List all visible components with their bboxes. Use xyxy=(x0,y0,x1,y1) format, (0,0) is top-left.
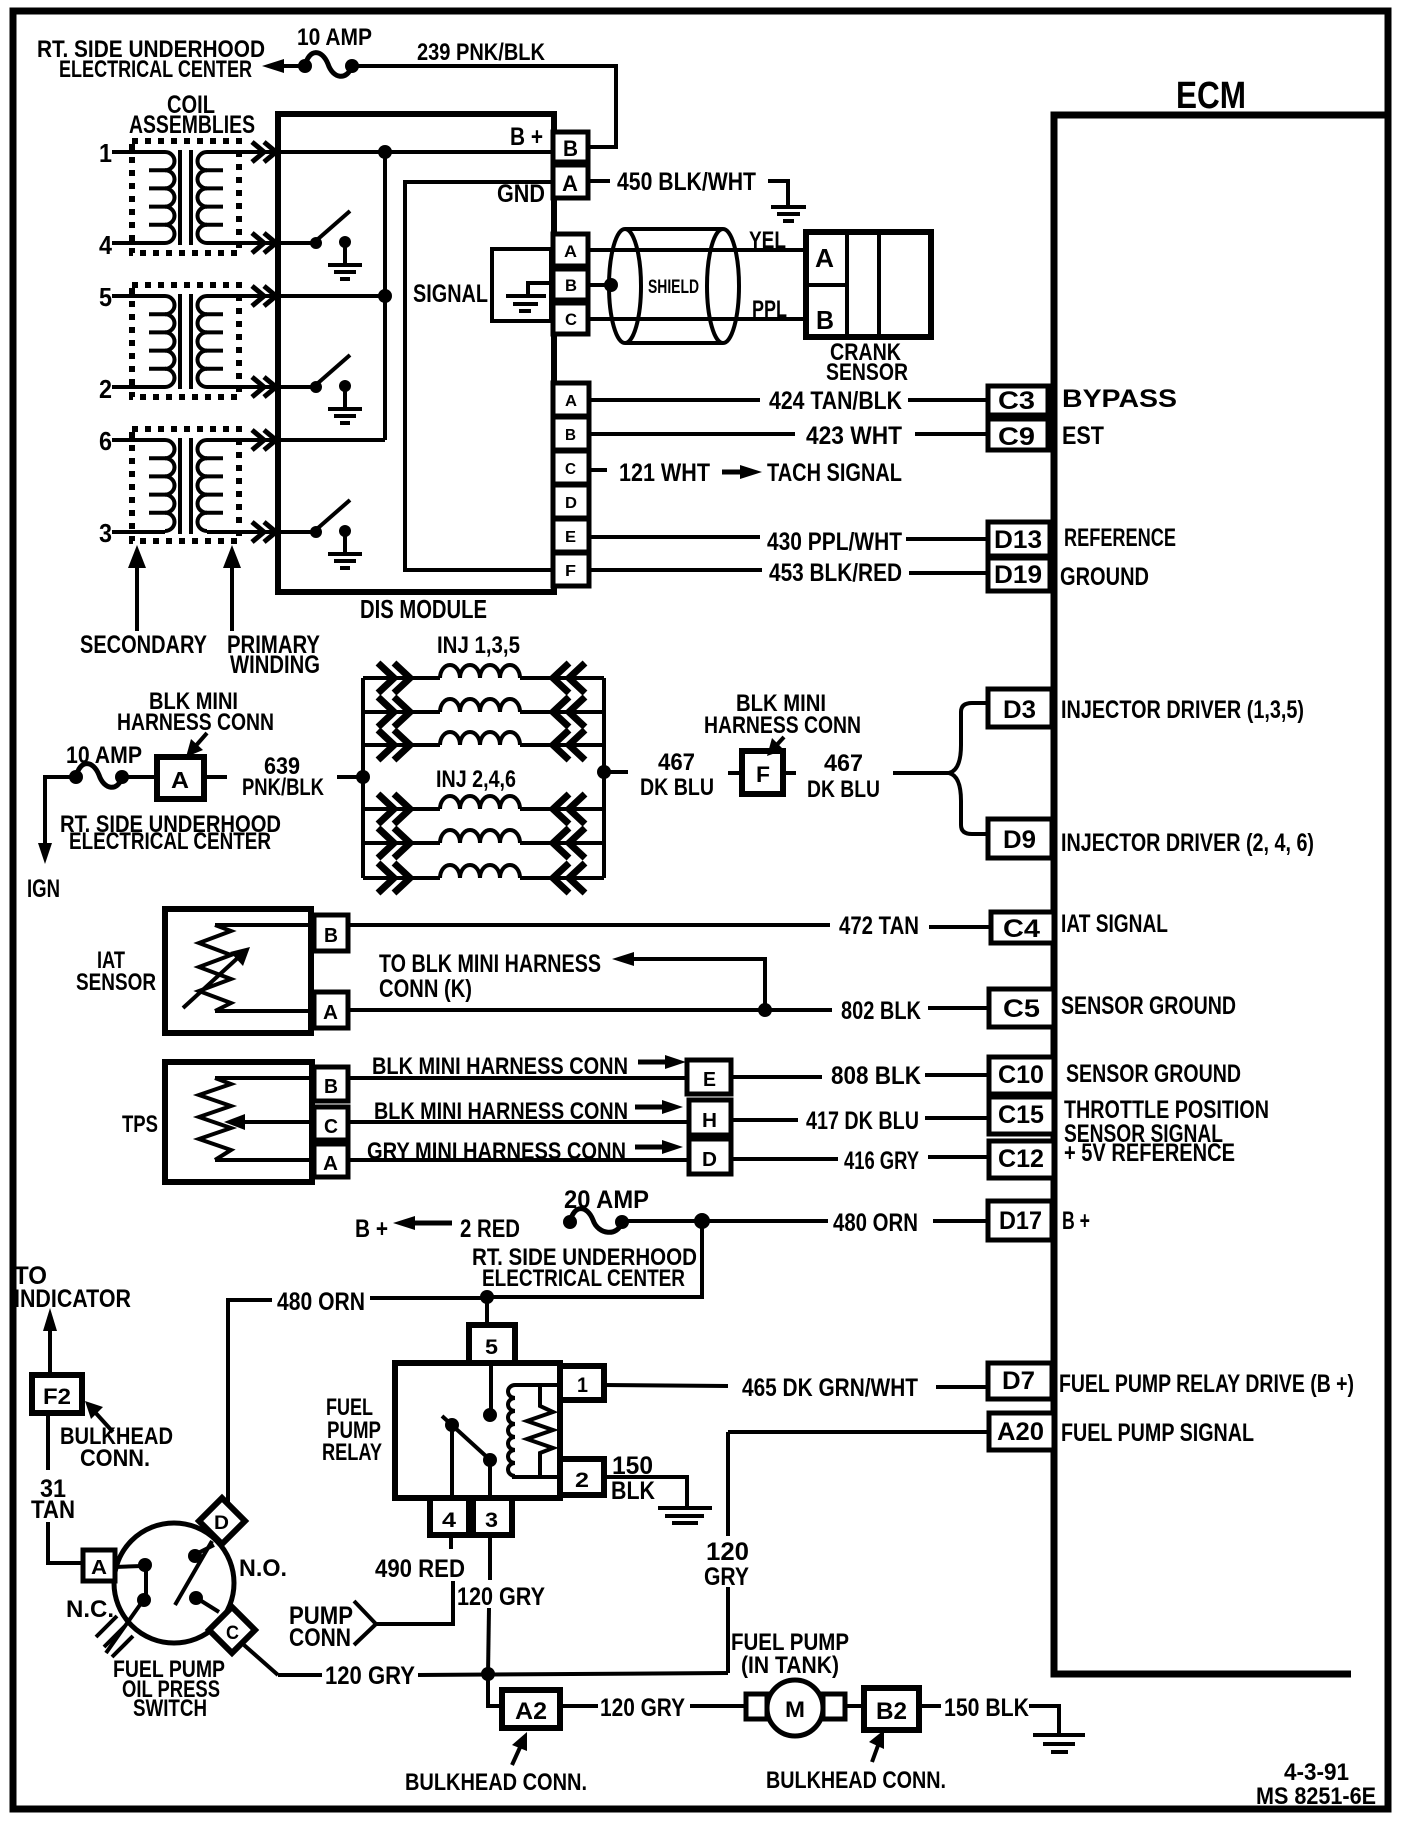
wire down to A2 xyxy=(488,1674,502,1706)
svg-text:120 GRY: 120 GRY xyxy=(457,1583,545,1611)
svg-text:D9: D9 xyxy=(1003,826,1036,854)
ECM box U1 xyxy=(1054,115,1388,1674)
svg-text:SENSOR GROUND: SENSOR GROUND xyxy=(1061,992,1236,1020)
N.C. hash xyxy=(106,1602,142,1653)
svg-text:(IN TANK): (IN TANK) xyxy=(741,1652,839,1679)
svg-text:465 DK GRN/WHT: 465 DK GRN/WHT xyxy=(742,1374,918,1402)
svg-text:D17: D17 xyxy=(999,1207,1042,1235)
svg-text:C3: C3 xyxy=(998,387,1035,415)
svg-text:SECONDARY: SECONDARY xyxy=(80,631,207,659)
svg-text:C12: C12 xyxy=(998,1145,1044,1173)
svg-text:INJ 1,3,5: INJ 1,3,5 xyxy=(437,632,520,659)
pin B xyxy=(553,417,589,450)
svg-text:B +: B + xyxy=(510,123,543,151)
wire 31 TAN xyxy=(46,1413,50,1470)
svg-text:TO BLK MINI HARNESS: TO BLK MINI HARNESS xyxy=(379,950,601,978)
svg-text:121 WHT: 121 WHT xyxy=(619,459,710,487)
shield cylinder xyxy=(625,227,723,231)
svg-text:BYPASS: BYPASS xyxy=(1062,385,1177,413)
pin D7 xyxy=(988,1363,1052,1399)
svg-text:TAN: TAN xyxy=(31,1496,75,1524)
wire 802 BLK sensor ground xyxy=(348,1008,832,1012)
wire 467 to F xyxy=(610,770,628,774)
svg-text:N.O.: N.O. xyxy=(239,1555,287,1582)
pin C3 xyxy=(988,386,1048,415)
wire 150 BLK to ground xyxy=(604,1477,687,1507)
DIS module box xyxy=(278,114,554,592)
svg-text:GRY: GRY xyxy=(704,1563,749,1591)
conn D box xyxy=(689,1139,731,1174)
svg-text:M: M xyxy=(785,1697,805,1722)
relay pin 2 box xyxy=(560,1459,604,1495)
relay pin 5 box xyxy=(469,1325,515,1363)
svg-text:480 ORN: 480 ORN xyxy=(277,1288,365,1316)
node row5 junction xyxy=(378,289,392,303)
conn E box xyxy=(687,1060,731,1094)
svg-text:BLK MINI HARNESS CONN: BLK MINI HARNESS CONN xyxy=(374,1098,628,1125)
svg-text:PPL: PPL xyxy=(752,296,787,323)
wire 120 GRY from switch C xyxy=(244,1645,278,1675)
svg-text:A: A xyxy=(323,1002,338,1024)
pin B (signal) xyxy=(553,269,588,300)
svg-text:424 TAN/BLK: 424 TAN/BLK xyxy=(769,387,902,415)
svg-text:D7: D7 xyxy=(1002,1367,1035,1395)
switch row2 xyxy=(207,385,312,389)
injector coil L3 (INJ 5) xyxy=(363,730,604,760)
svg-text:4: 4 xyxy=(442,1509,456,1532)
pin C9 xyxy=(988,419,1048,450)
svg-text:BULKHEAD CONN.: BULKHEAD CONN. xyxy=(405,1769,587,1796)
svg-text:B +: B + xyxy=(1062,1207,1090,1235)
svg-text:H: H xyxy=(702,1110,717,1132)
conn F box xyxy=(742,751,783,794)
primary arrow xyxy=(230,556,234,631)
svg-text:SENSOR GROUND: SENSOR GROUND xyxy=(1066,1060,1241,1088)
svg-text:480 ORN: 480 ORN xyxy=(833,1209,918,1237)
wire vertical bus in DIS xyxy=(383,152,387,440)
svg-text:A: A xyxy=(562,171,578,196)
svg-text:D: D xyxy=(702,1149,717,1171)
injector coil L5 (INJ 4) xyxy=(363,828,604,858)
fuel pump relay box K1 xyxy=(395,1363,560,1498)
svg-text:C: C xyxy=(565,461,576,478)
wire TPS B to E xyxy=(348,1076,687,1080)
svg-text:C: C xyxy=(226,1623,239,1644)
pin D13 xyxy=(988,522,1050,556)
svg-text:C15: C15 xyxy=(998,1101,1044,1129)
svg-text:ASSEMBLIES: ASSEMBLIES xyxy=(129,111,255,139)
svg-text:RELAY: RELAY xyxy=(322,1439,382,1466)
svg-text:3: 3 xyxy=(99,518,112,548)
svg-text:F: F xyxy=(565,563,576,580)
coil assembly 5-2 xyxy=(99,282,239,404)
fuse 10 AMP ign xyxy=(45,777,76,854)
ground for 450 xyxy=(768,181,788,205)
pin D3 xyxy=(988,689,1052,727)
wire crank A YEL xyxy=(588,248,806,252)
svg-text:ELECTRICAL CENTER: ELECTRICAL CENTER xyxy=(59,56,252,83)
IAT pin A xyxy=(314,992,348,1028)
TPS pin B xyxy=(314,1067,348,1101)
svg-text:FUEL PUMP SIGNAL: FUEL PUMP SIGNAL xyxy=(1061,1419,1254,1447)
pin D9 xyxy=(988,819,1052,858)
svg-text:IAT SIGNAL: IAT SIGNAL xyxy=(1061,910,1168,938)
svg-text:D: D xyxy=(214,1513,229,1534)
svg-text:WINDING: WINDING xyxy=(230,651,320,679)
svg-text:6: 6 xyxy=(99,426,112,456)
wire 416 GRY xyxy=(731,1157,838,1161)
coil assembly 6-3 xyxy=(99,426,239,548)
pin A20 xyxy=(989,1413,1054,1450)
relay coil xyxy=(508,1385,515,1476)
pin D19 xyxy=(988,558,1050,591)
pin E xyxy=(553,519,589,552)
svg-text:120: 120 xyxy=(706,1538,749,1566)
conn F2 box xyxy=(32,1375,82,1413)
relay resistor xyxy=(527,1385,553,1477)
IAT sensor box xyxy=(165,909,311,1033)
svg-text:B: B xyxy=(324,1076,338,1098)
terminal C diamond xyxy=(209,1607,255,1653)
svg-text:D3: D3 xyxy=(1003,696,1036,724)
svg-text:B: B xyxy=(324,925,338,947)
wire to B2 xyxy=(845,1704,864,1708)
pin B (DIS B+) xyxy=(553,132,588,162)
svg-text:C9: C9 xyxy=(998,423,1035,451)
coil assembly 1-4 xyxy=(99,138,239,260)
svg-text:MS 8251-6E: MS 8251-6E xyxy=(1256,1783,1376,1810)
pin D xyxy=(553,485,589,518)
svg-text:SWITCH: SWITCH xyxy=(133,1695,207,1722)
svg-text:GRY MINI HARNESS CONN: GRY MINI HARNESS CONN xyxy=(367,1138,626,1165)
wire crank B to shield xyxy=(588,283,610,287)
pin C15 xyxy=(989,1097,1054,1134)
wire 424 TAN/BLK xyxy=(589,398,760,402)
svg-text:HARNESS CONN: HARNESS CONN xyxy=(704,712,861,739)
wire 480 ORN to relay xyxy=(480,1290,494,1304)
svg-text:423 WHT: 423 WHT xyxy=(806,422,902,450)
svg-text:5: 5 xyxy=(485,1336,498,1359)
svg-text:CONN: CONN xyxy=(289,1624,351,1652)
switch contacts xyxy=(115,1566,142,1567)
wire 430 PPL/WHT xyxy=(589,535,760,539)
svg-text:GROUND: GROUND xyxy=(1060,563,1149,591)
pin D17 xyxy=(988,1201,1052,1240)
wire 120 GRY to pump xyxy=(560,1704,598,1708)
svg-text:ECM: ECM xyxy=(1176,75,1246,117)
crank sensor box xyxy=(806,232,931,337)
pin A (DIS GND) xyxy=(553,165,588,198)
pin C5 xyxy=(989,989,1054,1027)
wire B+ row1 inside DIS xyxy=(207,150,553,154)
brace to injector drivers xyxy=(949,703,988,773)
svg-text:INJ 2,4,6: INJ 2,4,6 xyxy=(436,766,516,793)
svg-text:SIGNAL: SIGNAL xyxy=(413,280,488,308)
svg-text:239 PNK/BLK: 239 PNK/BLK xyxy=(417,39,546,66)
svg-text:C: C xyxy=(324,1116,338,1138)
svg-text:120 GRY: 120 GRY xyxy=(600,1694,685,1722)
svg-text:A: A xyxy=(815,243,834,273)
svg-text:5: 5 xyxy=(99,282,112,312)
svg-text:430 PPL/WHT: 430 PPL/WHT xyxy=(767,528,902,556)
svg-text:C10: C10 xyxy=(998,1061,1044,1089)
conn A box (switch) xyxy=(83,1550,115,1581)
pin C (signal) xyxy=(553,303,588,334)
injector coil L6 (INJ 6) xyxy=(363,863,604,893)
wire 639 PNK/BLK xyxy=(204,775,227,779)
wire 417 DK BLU xyxy=(731,1118,798,1122)
svg-text:B +: B + xyxy=(355,1215,388,1243)
svg-text:A: A xyxy=(323,1153,338,1175)
svg-text:C4: C4 xyxy=(1003,915,1040,943)
switch row4 xyxy=(207,241,312,245)
svg-text:467: 467 xyxy=(824,750,863,777)
conn A box xyxy=(122,775,157,779)
pin A (signal) xyxy=(553,234,588,266)
IAT thermistor xyxy=(199,925,231,1011)
node right bus xyxy=(602,678,606,878)
TPS potentiometer xyxy=(199,1078,231,1160)
svg-text:472 TAN: 472 TAN xyxy=(839,912,919,940)
wire 472 TAN xyxy=(348,923,830,927)
svg-text:4-3-91: 4-3-91 xyxy=(1284,1759,1349,1786)
wire 121 WHT tach xyxy=(589,468,607,472)
svg-text:467: 467 xyxy=(658,749,695,776)
svg-text:TPS: TPS xyxy=(122,1111,158,1138)
svg-text:D19: D19 xyxy=(994,561,1042,589)
svg-text:B: B xyxy=(565,276,577,295)
svg-text:C: C xyxy=(565,310,577,329)
svg-text:808 BLK: 808 BLK xyxy=(831,1062,921,1090)
svg-text:E: E xyxy=(703,1069,716,1091)
svg-text:IGN: IGN xyxy=(27,875,60,903)
pin C4 xyxy=(991,912,1054,943)
svg-text:INDICATOR: INDICATOR xyxy=(14,1285,131,1313)
injector coil L2 (INJ 3) xyxy=(363,697,604,727)
svg-text:SENSOR: SENSOR xyxy=(76,969,156,996)
injector coil L1 (INJ 1) xyxy=(363,663,604,693)
svg-text:2: 2 xyxy=(99,374,112,404)
wire 423 WHT xyxy=(589,432,795,436)
TPS pin C xyxy=(314,1107,348,1140)
svg-text:GND: GND xyxy=(497,180,545,208)
svg-text:450 BLK/WHT: 450 BLK/WHT xyxy=(617,168,756,196)
node left bus xyxy=(361,678,365,878)
svg-text:A: A xyxy=(91,1557,107,1579)
pin F xyxy=(553,553,589,586)
svg-text:CONN.: CONN. xyxy=(80,1445,150,1472)
TPS box xyxy=(165,1062,312,1182)
svg-text:+ 5V REFERENCE: + 5V REFERENCE xyxy=(1064,1139,1235,1167)
svg-text:A: A xyxy=(171,767,189,793)
wire TPS C to H xyxy=(348,1120,689,1124)
svg-text:B: B xyxy=(565,427,576,444)
svg-text:INJECTOR DRIVER (1,3,5): INJECTOR DRIVER (1,3,5) xyxy=(1061,696,1304,724)
injector coil L4 (INJ 2) xyxy=(363,794,604,824)
svg-text:A20: A20 xyxy=(997,1418,1044,1446)
svg-text:453 BLK/RED: 453 BLK/RED xyxy=(769,559,902,587)
wire 150 BLK to ground xyxy=(919,1704,941,1708)
svg-text:EST: EST xyxy=(1062,422,1104,450)
svg-text:DIS MODULE: DIS MODULE xyxy=(360,594,487,624)
arrow to elec center xyxy=(262,59,284,73)
svg-text:150: 150 xyxy=(612,1452,653,1480)
svg-text:F: F xyxy=(756,762,770,787)
wire 808 BLK xyxy=(731,1075,822,1079)
svg-text:YEL: YEL xyxy=(749,227,786,254)
TPS pin A xyxy=(314,1144,348,1177)
svg-text:416 GRY: 416 GRY xyxy=(844,1147,919,1175)
switch row3 xyxy=(207,530,312,534)
svg-text:120 GRY: 120 GRY xyxy=(325,1662,415,1690)
pin A (DIS lower) xyxy=(553,383,589,416)
relay internals xyxy=(489,1363,493,1410)
wire 480 ORN to D17 xyxy=(622,1219,828,1223)
wire down from 480 junction xyxy=(487,1221,702,1297)
relay pin 4 box xyxy=(430,1498,469,1535)
secondary arrow xyxy=(135,556,139,631)
DIS inner signal box xyxy=(405,182,553,570)
svg-text:BULKHEAD CONN.: BULKHEAD CONN. xyxy=(766,1767,946,1794)
svg-text:SHIELD: SHIELD xyxy=(648,277,699,298)
svg-text:802 BLK: 802 BLK xyxy=(841,997,921,1025)
wire GND stub xyxy=(588,179,610,183)
svg-text:10 AMP: 10 AMP xyxy=(297,24,372,51)
svg-text:F2: F2 xyxy=(43,1384,71,1409)
svg-text:10 AMP: 10 AMP xyxy=(66,742,142,769)
ground box in DIS xyxy=(492,249,551,321)
svg-text:SENSOR: SENSOR xyxy=(826,359,908,386)
svg-text:N.C.: N.C. xyxy=(66,1596,114,1623)
wire 120 GRY up to A20 xyxy=(726,1587,730,1673)
relay pin 3 box xyxy=(473,1498,512,1535)
svg-text:INJECTOR DRIVER (2, 4, 6): INJECTOR DRIVER (2, 4, 6) xyxy=(1061,829,1314,857)
svg-text:ELECTRICAL CENTER: ELECTRICAL CENTER xyxy=(69,828,271,855)
arrow to A conn xyxy=(193,733,207,749)
svg-text:BLK: BLK xyxy=(611,1477,655,1505)
terminal D diamond xyxy=(199,1498,245,1544)
svg-text:FUEL PUMP RELAY DRIVE (B +): FUEL PUMP RELAY DRIVE (B +) xyxy=(1059,1370,1354,1398)
IAT pin B xyxy=(314,915,348,951)
svg-text:A: A xyxy=(565,393,577,410)
wire row6 xyxy=(207,438,385,442)
svg-text:E: E xyxy=(565,529,576,546)
svg-text:D13: D13 xyxy=(994,526,1042,554)
svg-text:1: 1 xyxy=(99,138,112,168)
svg-text:DK BLU: DK BLU xyxy=(640,774,714,801)
svg-text:TACH SIGNAL: TACH SIGNAL xyxy=(767,459,902,487)
svg-text:B: B xyxy=(563,136,578,161)
pin C xyxy=(553,451,589,484)
wire 465 DK GRN/WHT xyxy=(604,1385,728,1386)
conn B2 box xyxy=(864,1688,919,1730)
node row1 junction xyxy=(378,145,392,159)
wire crank C PPL xyxy=(588,317,806,321)
pump conn bracket xyxy=(354,1601,376,1645)
svg-text:417 DK BLU: 417 DK BLU xyxy=(806,1107,919,1135)
svg-text:3: 3 xyxy=(485,1509,498,1532)
svg-text:2 RED: 2 RED xyxy=(460,1215,520,1243)
chevrons into DIS xyxy=(252,142,276,542)
wire into relay pin 5 xyxy=(485,1297,489,1325)
svg-text:2: 2 xyxy=(575,1469,589,1492)
svg-text:DK BLU: DK BLU xyxy=(807,776,880,803)
conn H box xyxy=(689,1100,731,1135)
svg-text:C5: C5 xyxy=(1003,995,1040,1023)
svg-text:1: 1 xyxy=(577,1374,588,1397)
svg-text:PNK/BLK: PNK/BLK xyxy=(242,774,325,801)
conn A2 box xyxy=(502,1690,560,1728)
svg-text:BLK MINI HARNESS CONN: BLK MINI HARNESS CONN xyxy=(372,1053,628,1080)
svg-text:150 BLK: 150 BLK xyxy=(944,1694,1029,1722)
fuel pump oil press switch xyxy=(114,1523,234,1643)
svg-text:HARNESS CONN: HARNESS CONN xyxy=(117,709,274,736)
wire 120 GRY from pin 3 xyxy=(488,1535,492,1580)
pin C12 xyxy=(989,1141,1054,1178)
svg-text:D: D xyxy=(565,495,577,512)
relay pin 1 box xyxy=(560,1366,604,1400)
svg-text:490 RED: 490 RED xyxy=(375,1555,465,1583)
svg-text:B2: B2 xyxy=(876,1698,907,1725)
svg-text:A: A xyxy=(564,242,577,261)
wire 453 BLK/RED xyxy=(589,568,762,572)
svg-text:B: B xyxy=(816,305,834,335)
svg-text:4: 4 xyxy=(99,230,112,260)
svg-text:CONN (K): CONN (K) xyxy=(379,975,472,1003)
pin C10 xyxy=(989,1057,1054,1094)
wire 490 RED stub xyxy=(449,1535,453,1549)
wire TPS A to D xyxy=(348,1158,689,1162)
svg-text:ELECTRICAL CENTER: ELECTRICAL CENTER xyxy=(482,1265,685,1292)
wire row5 xyxy=(207,294,385,298)
svg-text:A2: A2 xyxy=(515,1698,547,1725)
svg-text:REFERENCE: REFERENCE xyxy=(1064,524,1176,552)
